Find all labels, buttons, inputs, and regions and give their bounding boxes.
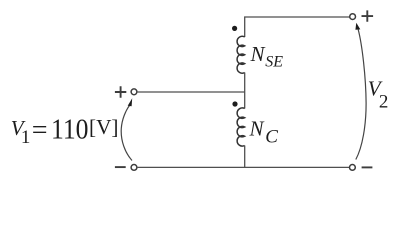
minus sign secondary — [362, 166, 373, 168]
V1 arrowhead — [128, 98, 133, 106]
terminal circle primary + — [131, 89, 137, 95]
terminal circle primary - — [131, 165, 137, 171]
polarity dot N_SE — [232, 26, 237, 31]
wire middle (primary + terminal to tap junction) — [138, 91, 245, 93]
wire between N_SE and N_C — [244, 73, 246, 109]
terminal circle secondary - — [350, 165, 356, 171]
wire bottom rail — [138, 166, 350, 168]
plus sign secondary — [362, 10, 374, 21]
wire top (from N_SE top to secondary + terminal) — [245, 17, 350, 37]
polarity dot N_C — [232, 101, 237, 106]
svg-text:=: = — [32, 115, 48, 146]
svg-text:N: N — [249, 116, 265, 140]
V2 arrowhead — [355, 23, 360, 30]
inductor N_SE coil — [237, 36, 245, 73]
V1 arrow arc — [121, 105, 132, 161]
svg-text:2: 2 — [379, 91, 389, 112]
inductor N_C coil — [237, 108, 245, 146]
svg-text:SE: SE — [265, 53, 283, 70]
V2 arrow arc — [356, 30, 366, 160]
svg-text:C: C — [265, 126, 278, 147]
wire N_C bottom to bottom rail — [244, 146, 246, 168]
svg-text:[V]: [V] — [89, 115, 119, 139]
svg-text:110: 110 — [51, 115, 89, 146]
minus sign primary — [115, 166, 126, 168]
plus sign primary — [115, 86, 126, 97]
terminal circle secondary + — [350, 14, 356, 20]
svg-text:N: N — [250, 42, 266, 66]
svg-text:1: 1 — [21, 127, 31, 148]
